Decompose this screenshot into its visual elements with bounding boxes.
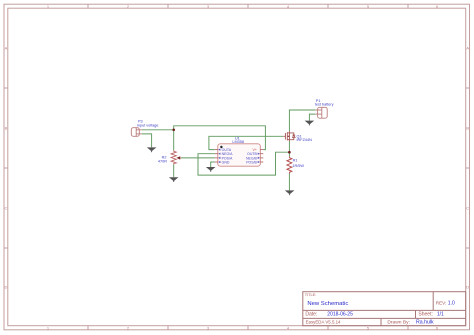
wire: junction A up and right to V+ vertical, down to U1 V+ pin: [174, 126, 266, 150]
svg-text:test battery: test battery: [315, 102, 334, 106]
wire: P3 pin1 to junction A: [142, 129, 174, 131]
pin name labels left: [222, 148, 234, 164]
wire: P1 pin2 to ground: [309, 114, 315, 121]
title block frame: [303, 292, 466, 326]
wire: U1 OUTA up and right to Q1 gate: [209, 136, 283, 149]
pin 1 dot: [220, 146, 222, 148]
wire: U1 GND pin to ground: [211, 162, 215, 167]
svg-text:C: C: [466, 206, 469, 211]
Q1 source arrow: [288, 135, 290, 137]
right pin arrows: [258, 153, 260, 164]
wire: R1 bottom to ground: [288, 174, 290, 191]
ground (P3 pin2): [147, 147, 157, 152]
svg-text:C: C: [5, 206, 8, 211]
junction node B (Q1 source / R1 / feedback): [288, 151, 291, 154]
transistor Q1 (N-MOSFET): [283, 131, 295, 141]
svg-text:2018-06-25: 2018-06-25: [327, 311, 353, 317]
wire: Q1 drain up and right to P1 pin1: [289, 110, 315, 131]
right pin stubs: [260, 150, 263, 162]
junction node A (P3 / supply / R2): [172, 128, 175, 131]
resistor R1: [287, 157, 292, 174]
left pin stubs: [215, 150, 218, 162]
svg-text:Drawn By:: Drawn By:: [387, 319, 410, 325]
svg-text:Sheet:: Sheet:: [418, 311, 432, 317]
potentiometer R2: [171, 150, 181, 164]
pin name labels right: [246, 152, 258, 164]
frame row letters right: [466, 46, 469, 290]
svg-text:EasyEDA V5.5.14: EasyEDA V5.5.14: [306, 320, 341, 325]
svg-text:B: B: [466, 126, 469, 131]
svg-text:Date:: Date:: [305, 311, 317, 317]
svg-text:New Schematic: New Schematic: [307, 301, 348, 307]
frame column ticks top: [88, 4, 408, 8]
svg-text:1.0: 1.0: [448, 301, 455, 307]
svg-text:Ra.hulk: Ra.hulk: [416, 320, 434, 326]
frame column numbers top: [47, 4, 439, 9]
connector P1 (test battery): [315, 107, 327, 118]
wire: R2 bottom to ground: [173, 164, 175, 177]
frame column ticks bottom: [88, 326, 408, 330]
svg-text:REV:: REV:: [436, 301, 447, 306]
wire: junction A down to R2 top: [173, 130, 175, 150]
ground (R2 bottom): [169, 177, 179, 182]
frame column numbers bottom: [47, 325, 439, 330]
frame row ticks right: [466, 88, 470, 248]
op-amp U1 LM358: [215, 144, 263, 166]
ground (R1 bottom): [285, 190, 295, 195]
R2 wiper arrowhead: [176, 156, 180, 159]
svg-text:V+: V+: [253, 148, 257, 152]
ground (P1 pin2): [305, 121, 315, 126]
connector P3: [131, 128, 141, 137]
svg-text:R1: R1: [293, 159, 298, 163]
svg-text:input voltage: input voltage: [137, 123, 159, 127]
left pin arrows: [218, 149, 220, 164]
svg-text:470R: 470R: [158, 160, 167, 164]
svg-text:D: D: [466, 285, 469, 290]
ground (U1 GND pin): [206, 167, 216, 172]
svg-text:POS/B: POS/B: [246, 160, 257, 164]
svg-text:1/1: 1/1: [437, 311, 444, 317]
svg-text:D: D: [5, 285, 8, 290]
frame row ticks left: [4, 88, 8, 248]
svg-text:IRFZ44N: IRFZ44N: [297, 138, 313, 142]
svg-text:GND: GND: [222, 160, 230, 164]
svg-text:TITLE:: TITLE:: [305, 292, 317, 297]
wire: Q1 source down to junction B and R1 top: [288, 141, 290, 157]
wire: P3 pin2 to ground: [142, 134, 152, 148]
frame row letters left: [5, 46, 8, 290]
svg-text:A: A: [466, 46, 469, 51]
wire: U1 NEG/A feedback loop to Q1 source node: [198, 152, 289, 175]
svg-text:1R/5W: 1R/5W: [292, 164, 304, 168]
Q1 diode triangle: [293, 135, 296, 137]
svg-text:B: B: [5, 126, 8, 131]
svg-text:A: A: [5, 46, 8, 51]
wire: R2 wiper to U1 POS/A: [181, 157, 215, 159]
svg-text:LM358: LM358: [232, 140, 244, 144]
